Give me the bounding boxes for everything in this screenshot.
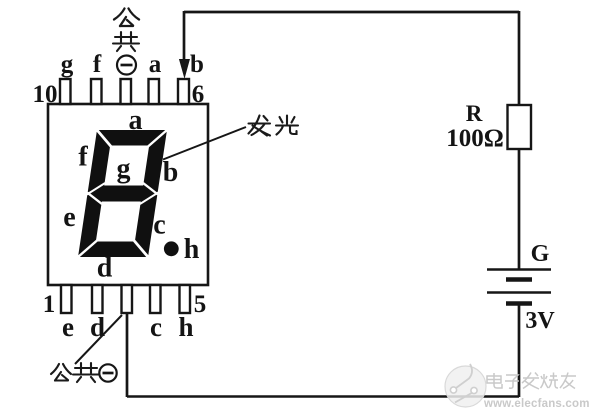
- pin d bottom: [92, 285, 103, 313]
- svg-text:b: b: [163, 157, 179, 188]
- pin e bottom (pin 1): [61, 285, 72, 313]
- svg-text:h: h: [178, 312, 193, 342]
- gap c/g: [140, 193, 158, 205]
- resistor R1 body: [508, 105, 532, 149]
- wire right vertical into resistor: [518, 11, 521, 106]
- bottom common label 公: [51, 364, 71, 381]
- pin common top (pin 3): [121, 79, 132, 104]
- battery cell2 long plate: [487, 291, 551, 294]
- bottom common minus symbol: [99, 364, 116, 381]
- wire resistor to battery: [518, 149, 521, 269]
- svg-text:f: f: [93, 51, 102, 78]
- svg-text:100Ω: 100Ω: [446, 125, 504, 152]
- svg-text:f: f: [78, 142, 88, 173]
- 友: [561, 375, 576, 377]
- watermark logo disc: [445, 364, 486, 407]
- svg-text:d: d: [97, 253, 113, 284]
- svg-text:d: d: [90, 312, 105, 342]
- decimal point h: [164, 241, 179, 256]
- 发: [523, 377, 539, 379]
- svg-text:www.elecfans.com: www.elecfans.com: [483, 398, 590, 410]
- 子: [506, 375, 518, 380]
- battery G cell1 long plate: [487, 268, 551, 271]
- wire left vertical drop to pin b: [183, 11, 186, 62]
- gap a/b: [147, 129, 168, 147]
- pin g top: [60, 79, 71, 104]
- pin h bottom (pin 5): [180, 285, 191, 313]
- wire battery to bottom rail: [518, 303, 521, 397]
- battery cell2 short plate: [506, 301, 532, 305]
- 7-segment digit: [77, 129, 168, 258]
- top common label 共 (vertical): [113, 32, 139, 51]
- svg-text:c: c: [153, 210, 165, 241]
- pin f top: [91, 79, 102, 104]
- gap b/g: [141, 183, 159, 195]
- label 发光 (guang): [276, 116, 298, 135]
- display package body U1: [48, 104, 208, 285]
- leader line to 发光: [163, 127, 246, 160]
- arrowhead into pin b: [180, 60, 190, 78]
- gap e/g: [85, 193, 103, 205]
- gap a/f: [93, 129, 114, 147]
- svg-text:G: G: [531, 241, 550, 267]
- svg-text:e: e: [62, 312, 74, 342]
- 电: [494, 373, 502, 388]
- wire bottom horizontal rail: [127, 395, 519, 398]
- pin a top: [149, 79, 160, 104]
- digit silhouette with windows: [78, 130, 167, 257]
- top common minus symbol: [117, 56, 136, 75]
- wire left vertical up to common pin: [126, 314, 129, 397]
- svg-text:a: a: [149, 51, 162, 78]
- top common label 公 (vertical): [114, 9, 139, 27]
- svg-text:a: a: [129, 105, 143, 136]
- svg-text:5: 5: [194, 291, 207, 318]
- svg-text:6: 6: [192, 81, 205, 108]
- pin b top (pin 6): [178, 79, 189, 104]
- pin c bottom: [150, 285, 161, 313]
- svg-text:c: c: [150, 312, 162, 342]
- svg-text:1: 1: [43, 291, 56, 318]
- wire top horizontal from pin b to resistor branch: [184, 11, 519, 14]
- svg-text:R: R: [466, 101, 483, 126]
- svg-text:g: g: [117, 154, 131, 185]
- label 发光 (fa): [249, 116, 271, 136]
- svg-text:h: h: [184, 234, 200, 265]
- svg-text:10: 10: [33, 81, 58, 108]
- 烧: [541, 374, 549, 388]
- gap c/d: [131, 240, 152, 258]
- bottom common label 共: [73, 363, 99, 382]
- gap e/d: [77, 240, 98, 258]
- battery cell1 short plate: [506, 277, 532, 281]
- leader line to bottom 公共 label: [75, 315, 122, 364]
- pin common bottom: [122, 285, 133, 313]
- svg-text:b: b: [190, 51, 204, 78]
- watermark text 电子发烧友: [487, 373, 576, 390]
- gap f/g: [87, 183, 105, 195]
- svg-text:e: e: [63, 202, 75, 233]
- svg-text:3V: 3V: [525, 308, 555, 334]
- svg-text:g: g: [61, 51, 74, 78]
